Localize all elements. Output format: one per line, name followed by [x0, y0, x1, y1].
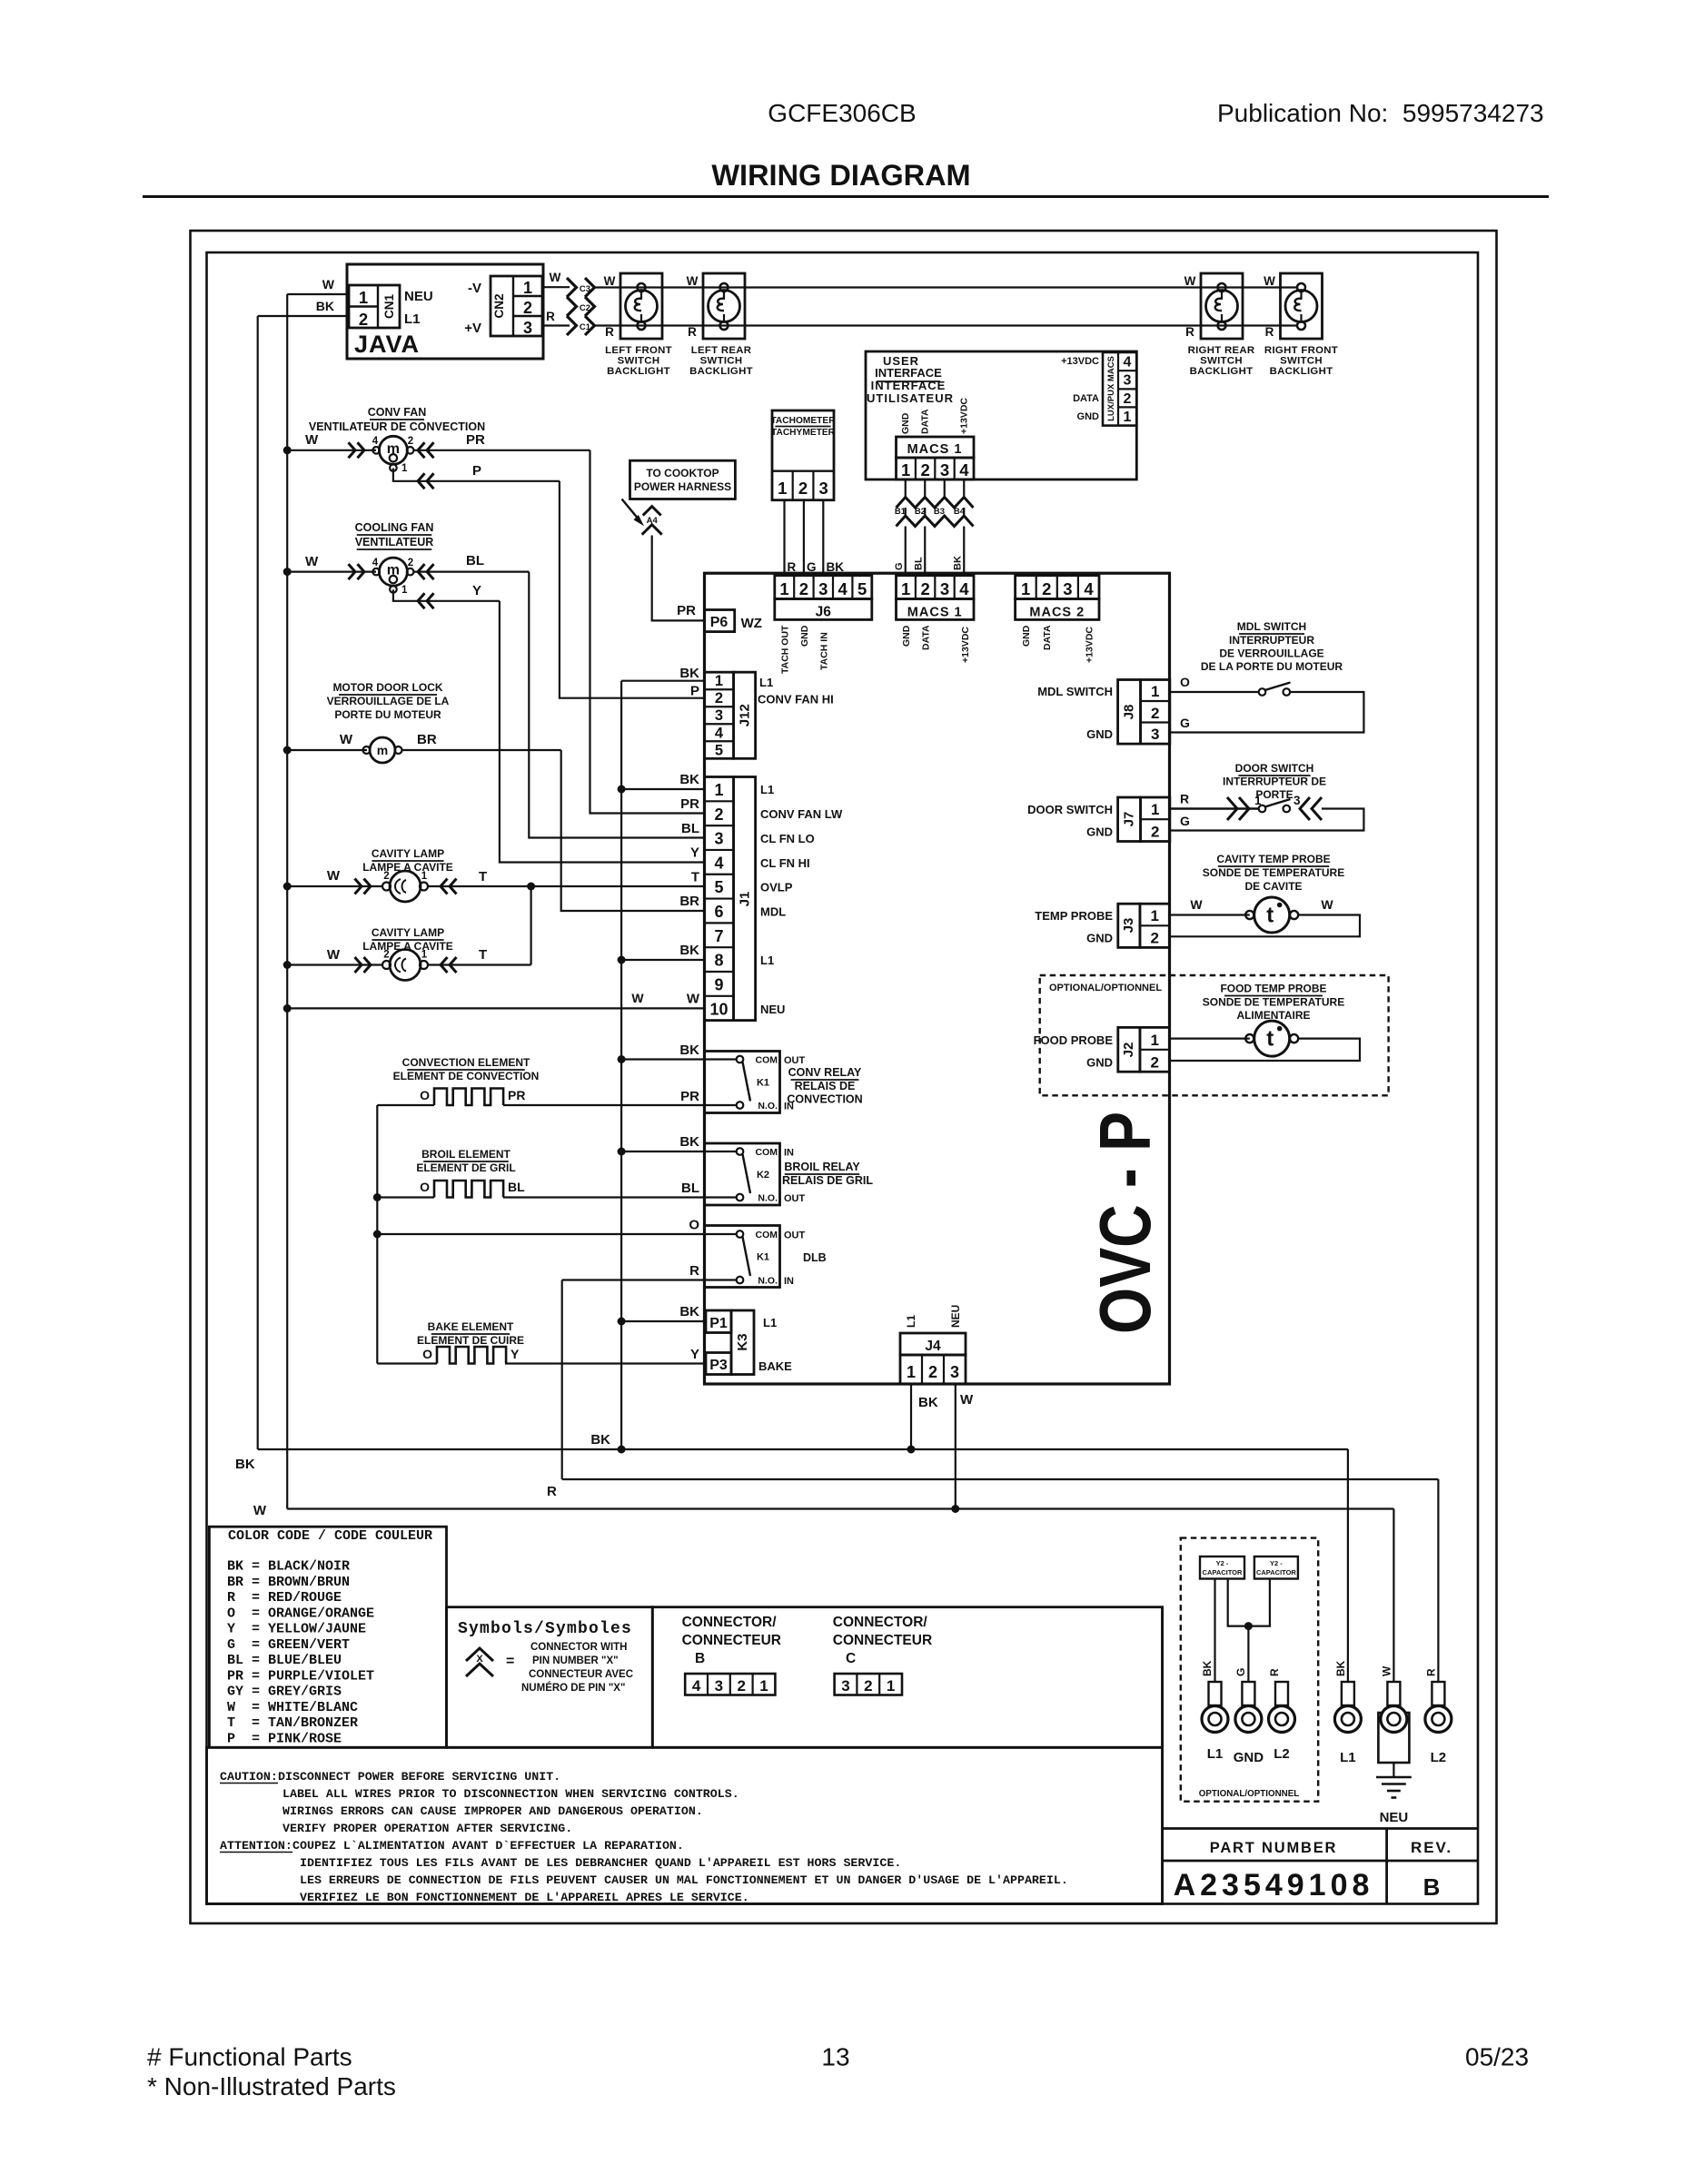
- svg-text:GND: GND: [1086, 727, 1113, 741]
- connector MACS 2 board: [1016, 576, 1099, 599]
- wire W to cooling fan: [287, 570, 376, 572]
- svg-text:J4: J4: [925, 1339, 941, 1354]
- user interface box: [866, 351, 1136, 479]
- door switch: [1170, 807, 1259, 810]
- svg-text:1: 1: [1151, 683, 1159, 700]
- svg-text:1: 1: [401, 585, 408, 596]
- svg-text:W: W: [1321, 897, 1333, 912]
- optional dashed box capacitors: [1181, 1538, 1318, 1802]
- connector C2: [567, 297, 577, 316]
- svg-text:Y: Y: [690, 1347, 699, 1362]
- wire BK bottom bus: [258, 1448, 1348, 1450]
- svg-text:+V: +V: [464, 321, 481, 336]
- svg-text:2: 2: [1042, 579, 1051, 598]
- svg-text:J7: J7: [1122, 812, 1137, 827]
- svg-text:G: G: [1234, 1668, 1247, 1676]
- svg-text:1: 1: [901, 579, 910, 598]
- svg-text:2: 2: [383, 871, 389, 882]
- svg-text:NEU: NEU: [949, 1305, 962, 1328]
- node BK junction broil relay: [618, 1148, 626, 1156]
- wire element bus vertical: [376, 1105, 378, 1364]
- svg-text:1: 1: [759, 1677, 768, 1695]
- svg-text:GND: GND: [900, 412, 911, 434]
- svg-text:4: 4: [715, 725, 724, 741]
- wires MACS1 to B connectors: [905, 479, 907, 498]
- svg-text:1: 1: [421, 950, 428, 961]
- svg-text:1: 1: [421, 871, 428, 882]
- svg-text:GND: GND: [1086, 825, 1113, 839]
- svg-text:R: R: [689, 1263, 699, 1279]
- svg-text:GND: GND: [1086, 932, 1113, 945]
- svg-text:MDL SWITCH: MDL SWITCH: [1037, 685, 1113, 698]
- svg-text:CN1: CN1: [382, 294, 396, 319]
- svg-text:R = RED/ROUGE: R = RED/ROUGE: [227, 1590, 342, 1606]
- symbols box: [447, 1607, 653, 1748]
- svg-text:COLOR CODE / CODE COULEUR: COLOR CODE / CODE COULEUR: [228, 1528, 432, 1544]
- terminal L1: [1342, 1682, 1354, 1705]
- svg-text:TACHYMETER: TACHYMETER: [771, 428, 836, 438]
- connector MACS 1 user interface: [897, 437, 975, 458]
- cavity lamp 1: [390, 871, 421, 902]
- lamp right rear switch backlight: [1201, 273, 1243, 339]
- wire door switch loop: [1170, 809, 1364, 831]
- svg-text:TO COOKTOP: TO COOKTOP: [646, 467, 719, 479]
- svg-text:CL FN HI: CL FN HI: [760, 856, 810, 870]
- wire BK from CN1 pin2: [258, 315, 348, 317]
- svg-text:R: R: [688, 325, 697, 339]
- svg-text:J3: J3: [1121, 918, 1136, 934]
- svg-text:DE LA PORTE DU MOTEUR: DE LA PORTE DU MOTEUR: [1201, 660, 1343, 673]
- arrow to cooktop: [622, 499, 640, 521]
- svg-text:W: W: [1380, 1665, 1393, 1676]
- svg-text:3: 3: [715, 1677, 723, 1695]
- terminal GND optional: [1242, 1682, 1254, 1705]
- svg-text:W: W: [253, 1503, 267, 1518]
- svg-text:OUT: OUT: [784, 1193, 806, 1204]
- svg-text:COOLING FAN: COOLING FAN: [355, 521, 434, 534]
- svg-text:BR = BROWN/BRUN: BR = BROWN/BRUN: [227, 1575, 350, 1590]
- svg-text:B: B: [1423, 1873, 1441, 1901]
- relay K2 broil relay: [705, 1143, 780, 1205]
- svg-text:RELAIS DE GRIL: RELAIS DE GRIL: [782, 1174, 873, 1187]
- svg-text:OVC - P: OVC - P: [1085, 1112, 1165, 1334]
- wire food temp probe loop: [1170, 1039, 1361, 1061]
- wire broil element left: [377, 1196, 434, 1198]
- svg-text:K1: K1: [757, 1078, 769, 1089]
- color code box: [209, 1527, 446, 1747]
- main board OVC-P outline: [705, 573, 1170, 1384]
- svg-text:K3: K3: [735, 1333, 750, 1350]
- svg-text:1: 1: [778, 479, 787, 498]
- svg-text:3: 3: [523, 319, 532, 337]
- wire bake element left: [377, 1362, 437, 1364]
- svg-text:BK = BLACK/NOIR: BK = BLACK/NOIR: [227, 1559, 350, 1575]
- food temp probe: [1170, 1037, 1250, 1039]
- svg-text:BACKLIGHT: BACKLIGHT: [689, 366, 753, 377]
- svg-text:PIN NUMBER "X": PIN NUMBER "X": [532, 1655, 619, 1666]
- svg-text:5: 5: [714, 878, 723, 896]
- wire P from conv fan pin1: [393, 469, 560, 481]
- wire PR vertical to J1 pin2: [590, 450, 705, 814]
- connector K3 bake: [706, 1310, 731, 1333]
- svg-text:W: W: [550, 271, 561, 284]
- svg-text:CONNECTEUR AVEC: CONNECTEUR AVEC: [529, 1669, 633, 1680]
- svg-text:P = PINK/ROSE: P = PINK/ROSE: [227, 1731, 342, 1746]
- svg-text:W: W: [305, 432, 319, 448]
- svg-text:BACKLIGHT: BACKLIGHT: [607, 366, 670, 377]
- svg-text:PR: PR: [680, 1089, 699, 1104]
- svg-text:P6: P6: [710, 615, 729, 630]
- svg-text:LUX/PUX MACS: LUX/PUX MACS: [1106, 356, 1116, 421]
- connector LUX/PUX MACS: [1103, 352, 1136, 426]
- svg-text:NEU: NEU: [404, 289, 433, 304]
- svg-text:5: 5: [715, 742, 723, 758]
- node W junction J4 wire: [951, 1505, 959, 1513]
- svg-text:R: R: [1268, 1668, 1281, 1676]
- svg-text:CAPACITOR: CAPACITOR: [1203, 1568, 1243, 1576]
- svg-text:PART NUMBER: PART NUMBER: [1210, 1840, 1338, 1856]
- wire W to motor door lock: [287, 749, 367, 751]
- wire W to cavity lamp 1: [287, 885, 382, 887]
- wire W from CN1 pin1: [287, 293, 348, 295]
- svg-text:2: 2: [920, 460, 929, 479]
- svg-text:OPTIONAL/OPTIONNEL: OPTIONAL/OPTIONNEL: [1049, 983, 1162, 993]
- svg-text:P1: P1: [709, 1316, 728, 1331]
- capacitor Y2 right: [1254, 1556, 1298, 1579]
- svg-text:MACS 2: MACS 2: [1029, 606, 1085, 620]
- svg-text:Publication No: 5995734273: Publication No: 5995734273: [1217, 99, 1544, 127]
- svg-text:6: 6: [714, 903, 723, 921]
- connector CN1: [349, 285, 400, 328]
- wire T branch to cavity lamp 2: [530, 886, 531, 965]
- svg-text:WIRING DIAGRAM: WIRING DIAGRAM: [711, 159, 970, 192]
- terminal L2 optional: [1275, 1682, 1288, 1705]
- svg-text:W: W: [631, 991, 644, 1005]
- svg-text:W: W: [1190, 897, 1203, 912]
- svg-text:JAVA: JAVA: [354, 331, 420, 358]
- svg-text:G = GREEN/VERT: G = GREEN/VERT: [227, 1637, 350, 1653]
- connector P6: [705, 610, 735, 632]
- connector legend box: [652, 1607, 1162, 1748]
- wire PR to conv relay NO: [503, 1104, 705, 1106]
- svg-text:=: =: [506, 1654, 514, 1669]
- svg-text:CAVITY LAMP: CAVITY LAMP: [372, 847, 444, 860]
- capacitor Y2 left: [1200, 1556, 1244, 1579]
- svg-text:W: W: [1184, 274, 1196, 288]
- svg-text:CONNECTOR/: CONNECTOR/: [833, 1615, 928, 1630]
- svg-text:GND: GND: [1021, 625, 1032, 647]
- svg-text:T = TAN/BRONZER: T = TAN/BRONZER: [227, 1715, 358, 1731]
- node W junction conv fan: [283, 446, 292, 454]
- svg-text:BL: BL: [681, 1181, 699, 1196]
- svg-text:CONNECTOR/: CONNECTOR/: [682, 1615, 778, 1630]
- svg-text:BR: BR: [679, 894, 699, 909]
- svg-text:N.O.: N.O.: [758, 1193, 778, 1204]
- svg-text:OVLP: OVLP: [760, 881, 793, 894]
- svg-text:2: 2: [1124, 391, 1132, 407]
- svg-text:OPTIONAL/OPTIONNEL: OPTIONAL/OPTIONNEL: [1199, 1789, 1300, 1799]
- svg-text:4: 4: [838, 579, 848, 598]
- wire R bottom bus: [562, 1478, 1439, 1480]
- svg-text:BL: BL: [508, 1180, 525, 1194]
- svg-text:RIGHT FRONT: RIGHT FRONT: [1264, 345, 1338, 356]
- svg-text:REV.: REV.: [1411, 1839, 1452, 1856]
- svg-text:* Non-Illustrated Parts: * Non-Illustrated Parts: [147, 2072, 396, 2100]
- caution box: [207, 1747, 1163, 1903]
- svg-text:4: 4: [1084, 579, 1094, 598]
- svg-text:2: 2: [737, 1677, 745, 1695]
- wire mdl switch loop: [1170, 692, 1364, 733]
- svg-text:2: 2: [920, 579, 929, 598]
- svg-text:CL FN LO: CL FN LO: [760, 832, 815, 845]
- svg-text:COM: COM: [756, 1230, 778, 1240]
- connector J4: [900, 1333, 966, 1355]
- svg-text:INTERFACE: INTERFACE: [871, 379, 947, 392]
- wire W to backlight lamps: [595, 286, 1298, 288]
- svg-text:PR: PR: [677, 603, 696, 618]
- wire W from J4 pin3: [955, 1384, 956, 1509]
- svg-text:K1: K1: [757, 1252, 769, 1263]
- wire BK to conv relay COM: [621, 1058, 704, 1060]
- svg-text:J12: J12: [738, 704, 753, 726]
- svg-text:WIRINGS ERRORS CAN CAUSE IMPRO: WIRINGS ERRORS CAN CAUSE IMPROPER AND DA…: [282, 1804, 703, 1818]
- node BK junction conv relay: [618, 1055, 626, 1063]
- svg-text:CONNECTEUR: CONNECTEUR: [833, 1633, 932, 1648]
- svg-text:BACKLIGHT: BACKLIGHT: [1190, 366, 1254, 377]
- svg-text:VENTILATEUR DE CONVECTION: VENTILATEUR DE CONVECTION: [309, 420, 485, 433]
- svg-text:PORTE DU MOTEUR: PORTE DU MOTEUR: [334, 708, 441, 721]
- svg-text:2: 2: [928, 1363, 937, 1381]
- svg-text:BK: BK: [590, 1432, 610, 1448]
- wire T from cavity lamp 1 to J1 pin5: [450, 879, 457, 894]
- svg-text:LABEL ALL WIRES PRIOR TO DISCO: LABEL ALL WIRES PRIOR TO DISCONNECTION W…: [282, 1787, 739, 1801]
- svg-text:4: 4: [714, 854, 723, 872]
- svg-text:# Functional Parts: # Functional Parts: [147, 2043, 352, 2071]
- wire BK to J12 pin1: [621, 680, 704, 682]
- svg-text:CAPACITOR: CAPACITOR: [1256, 1568, 1296, 1576]
- svg-text:T: T: [479, 947, 487, 963]
- svg-text:SONDE DE TEMPERATURE: SONDE DE TEMPERATURE: [1203, 996, 1344, 1009]
- svg-text:BK: BK: [1334, 1660, 1347, 1676]
- svg-text:CAUTION:: CAUTION:: [220, 1770, 278, 1784]
- svg-text:2: 2: [523, 299, 532, 317]
- svg-text:Symbols/Symboles: Symbols/Symboles: [458, 1620, 632, 1638]
- svg-text:MDL SWITCH: MDL SWITCH: [1237, 620, 1306, 633]
- svg-text:BK: BK: [235, 1457, 255, 1472]
- svg-text:GND: GND: [901, 625, 912, 647]
- wire BL vertical to J1 pin3: [529, 572, 704, 838]
- wire Y to K3 P3: [505, 1362, 706, 1364]
- svg-text:N.O.: N.O.: [758, 1276, 778, 1287]
- wire O to DLB relay COM: [377, 1233, 704, 1235]
- svg-text:3: 3: [1124, 373, 1132, 389]
- svg-text:OUT: OUT: [784, 1230, 806, 1241]
- svg-text:VERIFIEZ LE BON FONCTIONNEMENT: VERIFIEZ LE BON FONCTIONNEMENT DE L'APPA…: [300, 1891, 749, 1904]
- svg-text:W: W: [1264, 274, 1275, 288]
- svg-text:3: 3: [714, 830, 723, 848]
- svg-text:L1: L1: [905, 1315, 917, 1328]
- svg-text:L1: L1: [760, 954, 774, 967]
- svg-text:J6: J6: [816, 605, 832, 620]
- svg-text:ELEMENT DE CUIRE: ELEMENT DE CUIRE: [417, 1334, 524, 1347]
- lamp left rear switch backlight: [703, 273, 745, 339]
- svg-text:BK: BK: [679, 943, 699, 958]
- svg-text:Y: Y: [690, 845, 699, 861]
- svg-text:SWTICH: SWTICH: [700, 356, 743, 367]
- svg-text:POWER HARNESS: POWER HARNESS: [634, 480, 731, 493]
- lamp left front switch backlight: [620, 273, 662, 339]
- svg-text:P: P: [472, 463, 481, 479]
- wire BK bus to relays: [620, 681, 622, 1449]
- cavity lamp 2: [390, 950, 421, 981]
- svg-text:CONNECTOR WITH: CONNECTOR WITH: [530, 1642, 627, 1653]
- wire BL to broil relay NO: [503, 1196, 705, 1198]
- svg-text:BAKE ELEMENT: BAKE ELEMENT: [428, 1320, 514, 1333]
- symbol connector chevrons: [466, 1648, 493, 1661]
- svg-text:9: 9: [714, 975, 723, 993]
- svg-text:MACS 1: MACS 1: [907, 442, 963, 457]
- svg-text:MDL: MDL: [760, 905, 786, 919]
- svg-text:CONV FAN: CONV FAN: [368, 406, 427, 419]
- svg-text:2: 2: [1150, 930, 1158, 947]
- svg-text:C2: C2: [580, 303, 590, 313]
- svg-text:VERIFY PROPER OPERATION AFTER: VERIFY PROPER OPERATION AFTER SERVICING.: [282, 1822, 572, 1835]
- svg-text:OUT: OUT: [784, 1055, 806, 1066]
- connector MACS 1 board: [897, 576, 975, 599]
- svg-text:Y = YELLOW/JAUNE: Y = YELLOW/JAUNE: [227, 1622, 366, 1637]
- svg-text:2: 2: [383, 950, 389, 961]
- svg-text:+13VDC: +13VDC: [1085, 627, 1095, 663]
- svg-text:INTERFACE: INTERFACE: [875, 366, 942, 380]
- node BK junction J4 wire: [907, 1446, 916, 1454]
- svg-text:W: W: [960, 1392, 974, 1408]
- svg-text:K2: K2: [757, 1170, 769, 1181]
- svg-text:T: T: [691, 870, 699, 885]
- svg-text:W: W: [305, 554, 319, 569]
- svg-text:CONV FAN HI: CONV FAN HI: [758, 693, 834, 707]
- svg-text:DLB: DLB: [803, 1251, 827, 1264]
- svg-text:1: 1: [901, 460, 910, 479]
- svg-text:NEU: NEU: [760, 1003, 785, 1016]
- wire cavity temp probe loop: [1170, 915, 1361, 937]
- svg-text:SWITCH: SWITCH: [618, 356, 660, 367]
- svg-text:R: R: [546, 310, 555, 323]
- svg-text:BK: BK: [679, 1043, 699, 1058]
- wire W to NEU terminal: [1393, 1509, 1394, 1683]
- svg-text:INTERRUPTEUR DE: INTERRUPTEUR DE: [1223, 776, 1326, 788]
- svg-text:DE VERROUILLAGE: DE VERROUILLAGE: [1219, 647, 1323, 660]
- wire Y from cooling fan pin1: [393, 589, 500, 601]
- svg-text:R: R: [1185, 325, 1194, 339]
- svg-text:O: O: [1180, 675, 1190, 689]
- svg-text:Y: Y: [472, 583, 481, 598]
- wire W left bus vertical: [286, 294, 288, 1509]
- svg-text:Y: Y: [510, 1347, 520, 1361]
- svg-text:m: m: [377, 743, 388, 757]
- svg-text:1: 1: [401, 463, 408, 474]
- node BK junction K3: [618, 1318, 626, 1326]
- svg-text:J1: J1: [738, 892, 753, 907]
- svg-text:R: R: [547, 1484, 557, 1499]
- title underline: [143, 195, 1549, 198]
- svg-text:BR: BR: [417, 732, 437, 747]
- svg-text:IDENTIFIEZ TOUS LES FILS AVANT: IDENTIFIEZ TOUS LES FILS AVANT DE LES DE…: [300, 1856, 901, 1870]
- connector row B1 B2 B3 B4 lower: [897, 516, 974, 527]
- svg-text:P: P: [690, 684, 699, 699]
- svg-text:UTILISATEUR: UTILISATEUR: [867, 391, 954, 405]
- svg-text:CONV RELAY: CONV RELAY: [788, 1066, 862, 1079]
- svg-text:Y2 -: Y2 -: [1270, 1559, 1283, 1567]
- svg-text:CONVECTION: CONVECTION: [787, 1093, 862, 1106]
- svg-text:3: 3: [841, 1677, 849, 1695]
- svg-text:1: 1: [1124, 410, 1132, 425]
- svg-text:2: 2: [864, 1677, 872, 1695]
- svg-text:CAVITY LAMP: CAVITY LAMP: [372, 926, 444, 939]
- wire BK to broil relay COM: [621, 1151, 704, 1152]
- svg-text:L2: L2: [1274, 1746, 1290, 1762]
- svg-text:BK: BK: [679, 1304, 699, 1319]
- svg-text:PR: PR: [466, 432, 485, 448]
- wires tachometer to J6: [783, 500, 785, 576]
- svg-text:3: 3: [819, 479, 828, 498]
- svg-text:LEFT FRONT: LEFT FRONT: [605, 345, 672, 356]
- svg-text:R: R: [605, 325, 614, 339]
- svg-text:2: 2: [799, 579, 808, 598]
- svg-text:W: W: [687, 992, 700, 1007]
- svg-text:L1: L1: [1340, 1750, 1356, 1765]
- svg-text:3: 3: [940, 460, 949, 479]
- svg-text:1: 1: [1150, 907, 1158, 924]
- connector J2: [1118, 1027, 1140, 1072]
- svg-text:T: T: [479, 869, 487, 884]
- wire P vertical to J12 pin2: [560, 481, 705, 698]
- svg-text:DISCONNECT POWER BEFORE SERVIC: DISCONNECT POWER BEFORE SERVICING UNIT.: [278, 1770, 560, 1784]
- svg-text:13: 13: [821, 2043, 849, 2071]
- terminal NEU: [1378, 1713, 1409, 1763]
- svg-text:O: O: [689, 1218, 699, 1233]
- wire R to backlight lamps: [595, 324, 1298, 326]
- wire W to conv fan: [287, 450, 376, 451]
- svg-text:VERROUILLAGE DE LA: VERROUILLAGE DE LA: [327, 695, 450, 707]
- connector A4: [643, 507, 661, 516]
- svg-text:SONDE DE TEMPERATURE: SONDE DE TEMPERATURE: [1203, 866, 1344, 879]
- connector row B1 B2 B3 B4 upper: [897, 498, 974, 509]
- svg-text:O = ORANGE/ORANGE: O = ORANGE/ORANGE: [227, 1606, 374, 1621]
- svg-text:W: W: [327, 947, 341, 963]
- wire W to cavity lamp 2: [287, 964, 382, 965]
- svg-text:BACKLIGHT: BACKLIGHT: [1270, 366, 1333, 377]
- svg-text:NUMÉRO DE PIN "X": NUMÉRO DE PIN "X": [521, 1682, 625, 1694]
- svg-text:INTERRUPTEUR: INTERRUPTEUR: [1229, 634, 1314, 647]
- svg-text:G: G: [1180, 716, 1190, 730]
- svg-text:BAKE: BAKE: [758, 1359, 792, 1373]
- svg-text:GND: GND: [1234, 1750, 1264, 1765]
- motor cooling fan: [379, 558, 407, 586]
- node BK junction J1 pin8: [618, 956, 626, 964]
- node BK junction bus left: [618, 1446, 626, 1454]
- svg-text:BK: BK: [1201, 1660, 1214, 1676]
- svg-text:Y2 -: Y2 -: [1216, 1559, 1229, 1567]
- svg-text:m: m: [387, 441, 400, 457]
- svg-text:W: W: [604, 274, 616, 288]
- node W junction cavity lamp 2: [283, 961, 292, 969]
- relay K1 DLB: [705, 1226, 780, 1288]
- svg-text:L1: L1: [759, 676, 773, 689]
- svg-text:LEFT REAR: LEFT REAR: [691, 345, 752, 356]
- node W junction NEU wire: [283, 1004, 292, 1013]
- svg-text:IN: IN: [784, 1148, 794, 1159]
- svg-text:m: m: [387, 563, 400, 578]
